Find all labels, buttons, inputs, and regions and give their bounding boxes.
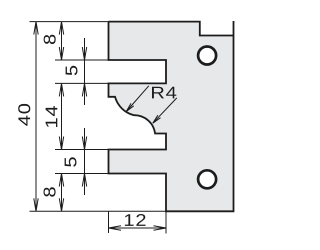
extension line top <box>30 21 109 23</box>
arrow 40 top <box>34 22 38 35</box>
dim line 5 bottom <box>84 128 86 195</box>
arrow 8top down <box>59 47 63 60</box>
arrow 14 up <box>59 83 63 96</box>
arrow 12 left <box>109 226 122 230</box>
arrow 8bot down <box>59 198 63 211</box>
arrow 5top (points down) <box>82 47 86 60</box>
extension line 12 right <box>165 211 167 233</box>
arrow 40 bottom <box>34 198 38 211</box>
dim text 8 bottom <box>44 187 56 196</box>
dim text 8 top <box>44 35 56 44</box>
arrow 8bot up <box>59 174 63 187</box>
extension line 12 left <box>108 211 110 233</box>
leader R4 cove <box>126 86 149 112</box>
dim text 40 <box>18 104 30 126</box>
arrow 5bot (points up) <box>82 174 86 187</box>
extension line slot bottom <box>55 82 109 84</box>
cutter body fill <box>109 22 234 212</box>
extension line bottom <box>30 210 167 212</box>
dim line 12 <box>109 227 167 229</box>
dim line 5 top <box>84 38 86 105</box>
dim line 8 bottom <box>61 174 63 212</box>
dim line 8 top <box>61 22 63 60</box>
arrow 14 down <box>59 137 63 150</box>
arrow 5bot (points down) <box>82 137 86 150</box>
leader arrowhead cove <box>126 103 134 111</box>
cutter body outline <box>109 21 234 211</box>
dim line 14 <box>61 83 63 149</box>
dim text 5 top <box>66 66 78 76</box>
dim line 40 <box>35 22 37 212</box>
leader arrowhead round <box>153 115 161 123</box>
arrow 8top up <box>59 22 63 35</box>
extension line slot top <box>55 59 109 61</box>
arrow 5top (points up) <box>82 83 86 96</box>
extension line tooth top <box>55 149 109 151</box>
mounting hole top <box>198 47 216 65</box>
dim text 12 <box>125 214 146 226</box>
arrow 12 right <box>154 226 167 230</box>
dim text 5 bottom <box>65 157 77 167</box>
dim text 14 <box>46 106 58 127</box>
mounting hole bottom <box>198 170 216 188</box>
extension line step <box>55 173 109 175</box>
leader R4 round <box>153 98 177 123</box>
radius text R4 <box>152 87 176 99</box>
